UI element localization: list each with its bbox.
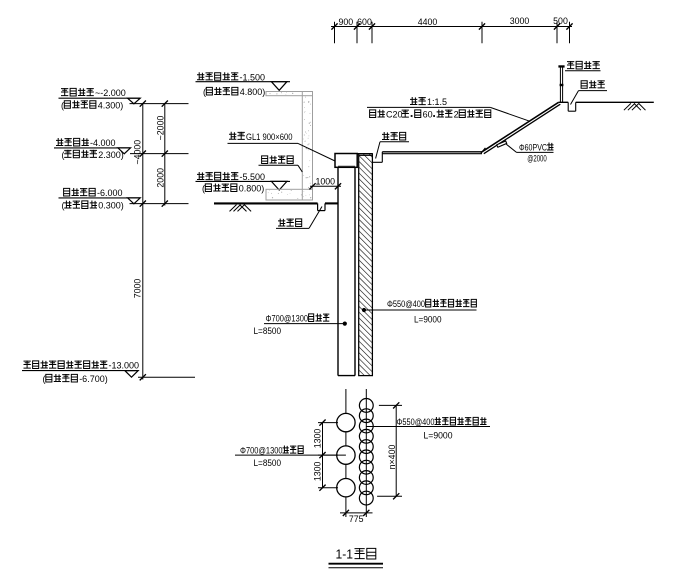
platform lines over pile top [357, 153, 372, 155]
svg-text:1-1: 1-1 [336, 548, 354, 562]
intercepting ditch left [381, 152, 383, 163]
structure floor slab [266, 189, 313, 200]
mixing pile label underline (plan) [366, 426, 490, 428]
svg-text:~-2.000: ~-2.000 [95, 88, 126, 98]
svg-text:0.300): 0.300) [98, 201, 124, 211]
soil hatch at pit bottom [230, 205, 237, 212]
svg-text:-1.500: -1.500 [240, 72, 266, 82]
svg-text:1300: 1300 [313, 429, 323, 449]
plan right dim line nx400 [395, 405, 397, 496]
mixing pile label leader (section) [362, 309, 477, 311]
svg-text:1000: 1000 [316, 176, 336, 186]
top dim extension line 1 [334, 22, 336, 43]
svg-text:4.800): 4.800) [240, 87, 266, 97]
slope toe cap [481, 148, 486, 154]
plan centerline bored piles [345, 389, 347, 517]
structure roof slab [266, 92, 313, 96]
pit bottom ground line [214, 202, 318, 204]
svg-text:Φ60PVC: Φ60PVC [519, 143, 547, 153]
svg-text:775: 775 [349, 514, 364, 524]
svg-text:Φ700@1300: Φ700@1300 [266, 314, 309, 324]
svg-text:3000: 3000 [510, 16, 530, 26]
level extension line L3 [130, 203, 189, 205]
label construction railing 施工栏杆 [567, 61, 574, 69]
svg-text:900: 900 [338, 17, 353, 27]
drainage ditch label underline + leader [276, 227, 309, 229]
right ditch label underline + leader [579, 90, 608, 92]
svg-text:~4000: ~4000 [133, 140, 143, 165]
bored pile label underline (plan) [235, 454, 346, 456]
svg-text:GL1 900×600: GL1 900×600 [246, 132, 293, 142]
svg-text:1:1.5: 1:1.5 [427, 97, 447, 107]
svg-text:500: 500 [553, 16, 568, 26]
svg-text:-6.700): -6.700) [79, 374, 108, 384]
level extension line L1 [130, 103, 189, 105]
structure side wall [302, 92, 312, 201]
top dim extension line 4 [481, 22, 483, 43]
structure stipple [268, 92, 312, 199]
svg-text:Φ550@400: Φ550@400 [397, 417, 435, 427]
svg-text:600: 600 [357, 17, 372, 27]
top dim extension line 2 [356, 22, 358, 43]
top dim extension line 6 [569, 22, 571, 43]
svg-text:1300: 1300 [313, 462, 323, 482]
left ditch label underline + leader [380, 141, 409, 143]
PVC label underline + leader [517, 151, 554, 153]
svg-text:7000: 7000 [133, 279, 143, 299]
svg-text:4400: 4400 [418, 17, 438, 27]
label site elevation -2.000 [61, 88, 68, 96]
svg-text:Φ550@400: Φ550@400 [387, 299, 425, 309]
top dim extension line 3 [371, 22, 373, 43]
svg-text:L=8500: L=8500 [254, 458, 282, 469]
svg-text:L=9000: L=9000 [424, 431, 453, 442]
slope label underline + leader [367, 106, 490, 108]
plan left dim line 1300/1300 [322, 423, 324, 488]
plan bottom dim 775 [340, 512, 373, 514]
bored pile label leader (section) [264, 323, 345, 325]
svg-text:-5.500: -5.500 [240, 172, 266, 182]
svg-text:n×400: n×400 [387, 445, 397, 470]
svg-text:2000: 2000 [156, 168, 166, 188]
svg-text:L=9000: L=9000 [414, 315, 442, 326]
bench double lines [382, 151, 482, 153]
vertical dim chain A (outer) [142, 104, 144, 380]
slope face shotcrete lines [482, 102, 559, 152]
upper ground line [559, 101, 569, 103]
svg-text:(: ( [203, 87, 206, 97]
label crown beam GL1 900x600 [229, 132, 236, 140]
bored pile (section) [337, 167, 339, 375]
top dimension chain line [331, 26, 572, 28]
svg-text:-6.000: -6.000 [97, 188, 123, 198]
svg-text:(: ( [62, 150, 65, 160]
label intercepting ditch left 截水沟 [382, 132, 389, 140]
dim line 1000 [310, 185, 341, 187]
label pit bottom elevation -6.000 [64, 188, 70, 196]
label intercepting ditch right 截水沟 [581, 81, 587, 89]
svg-text:(: ( [62, 201, 65, 211]
label drainage ditch 排水沟 [278, 219, 285, 227]
level extension line L4 (pile bottom) [138, 376, 195, 378]
plan centerline mixing piles [365, 389, 367, 517]
label roof slab elevation -1.500 [197, 72, 204, 80]
level extension line L2 [130, 153, 189, 155]
intercepting ditch right [567, 102, 569, 111]
svg-text:-4.000: -4.000 [90, 138, 116, 148]
svg-text:(: ( [61, 100, 64, 110]
label pile bottom elevation -13.000 [24, 361, 31, 369]
svg-text:L=8500: L=8500 [254, 326, 282, 337]
label floor slab elevation -5.500 [197, 172, 204, 180]
railing label underline [565, 70, 601, 72]
PVC weep pipe [497, 141, 507, 147]
label platform elevation -4.000 [56, 138, 63, 146]
vertical dim chain B (inner) [164, 104, 166, 206]
crown beam label underline/leader [228, 142, 299, 144]
svg-text:60: 60 [423, 110, 433, 120]
svg-text:2.300): 2.300) [98, 150, 124, 160]
svg-text:0.800): 0.800) [239, 184, 265, 194]
soil hatch upper ground [624, 103, 631, 110]
label underground structure [262, 156, 268, 164]
drainage ditch [317, 203, 319, 210]
label shotcrete C20 [370, 110, 376, 118]
top dim extension line 5 [556, 22, 558, 43]
svg-text:~2000: ~2000 [156, 116, 166, 141]
label slope ratio 1:1.5 [410, 97, 417, 105]
svg-text:Φ700@1300: Φ700@1300 [240, 446, 283, 456]
bored pile circles (plan) [337, 413, 355, 431]
mixing pile circles (plan) [359, 399, 373, 413]
underground structure leader [259, 164, 299, 166]
crown beam [335, 154, 357, 168]
svg-text:(: ( [43, 374, 46, 384]
svg-text:@2000: @2000 [527, 153, 547, 163]
svg-text:4.300): 4.300) [98, 100, 124, 110]
svg-text:-13.000: -13.000 [109, 361, 140, 371]
svg-text:2: 2 [454, 110, 459, 120]
svg-text:(: ( [202, 184, 205, 194]
svg-text:C20: C20 [386, 110, 403, 120]
construction railing post [559, 66, 561, 102]
title underline [329, 563, 384, 565]
